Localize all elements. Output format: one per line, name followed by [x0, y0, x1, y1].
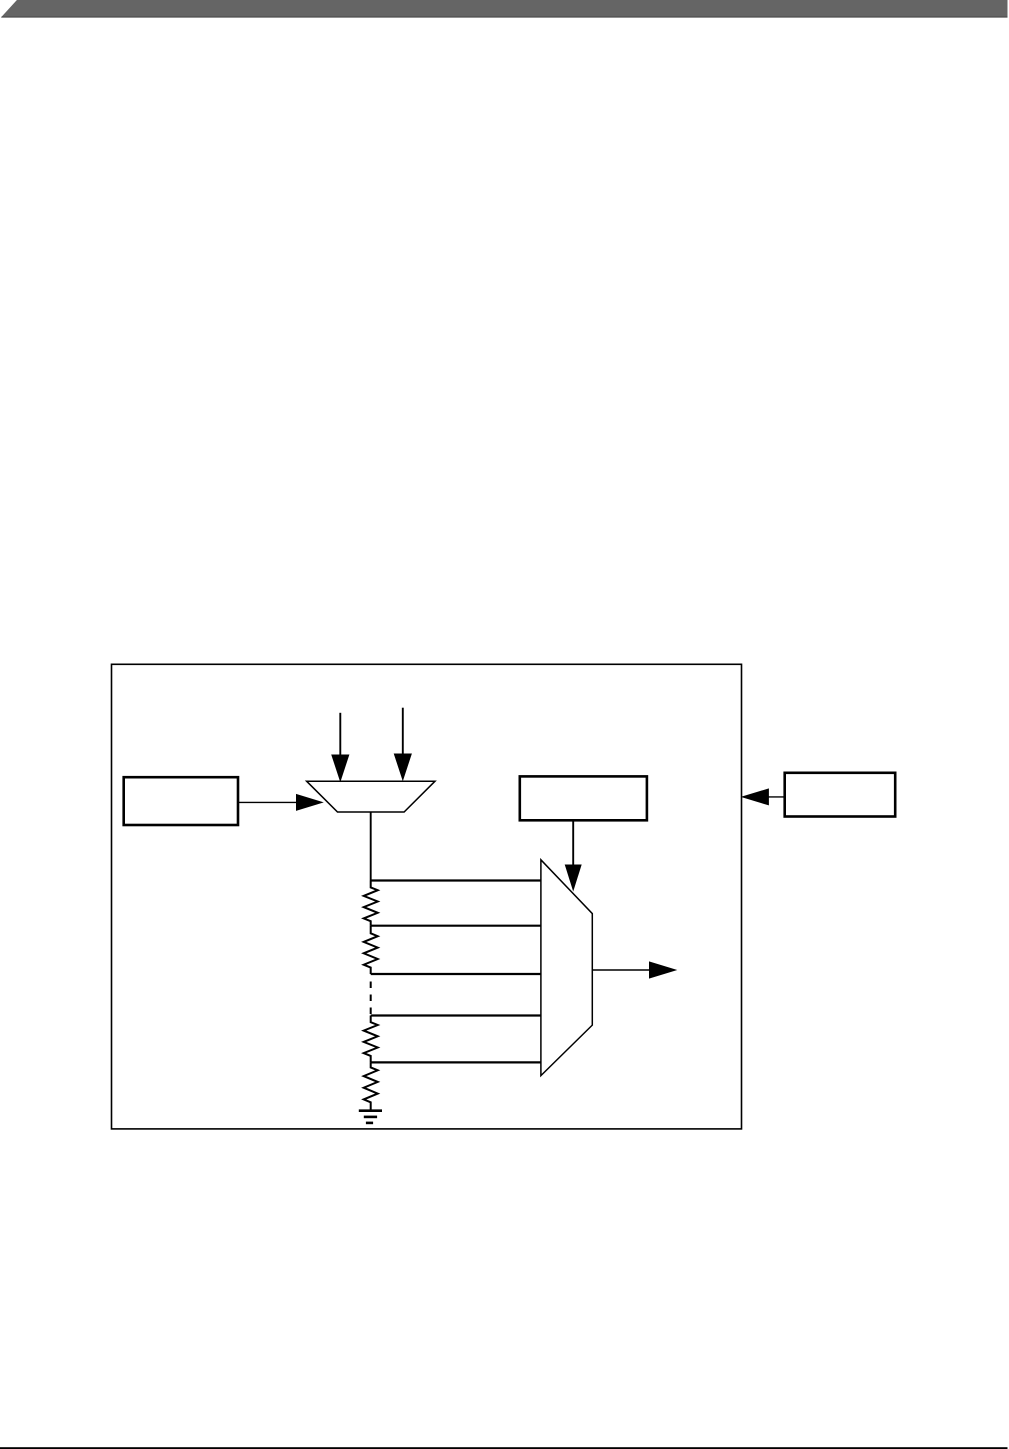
- header bar: [1, 0, 1008, 18]
- wire from U1 down to ladder top: [370, 812, 372, 881]
- box left (VRSS select): [124, 777, 238, 825]
- resistor R1: [364, 881, 378, 926]
- tap wire 1: [371, 879, 541, 881]
- trapezoid U1 (reference select mux): [307, 781, 435, 812]
- header bar bottom edge: [2, 16, 1008, 18]
- resistor R3: [364, 1016, 378, 1063]
- tap wire 4: [371, 1014, 541, 1016]
- footer rule: [0, 1447, 1008, 1449]
- ground: [359, 1109, 382, 1112]
- mux U2 (16-to-1 analog mux): [541, 860, 592, 1076]
- wire arrow from right box into frame: [764, 796, 785, 798]
- box right (enable, outside frame): [785, 773, 896, 817]
- wire arrow input 1 (down into U1): [339, 713, 341, 758]
- resistor R4: [364, 1062, 378, 1110]
- tap wire 2: [371, 925, 541, 927]
- wire arrow from left box into U1: [238, 801, 300, 803]
- wire arrow input 2 (down into U1): [402, 708, 404, 757]
- box middle (CVR control): [520, 776, 647, 820]
- resistor R2: [364, 926, 378, 974]
- wire arrow output (CVREF): [592, 969, 652, 971]
- tap wire 3: [371, 973, 541, 975]
- dashed ladder segment: [370, 982, 372, 1015]
- wire arrow from middle box into mux U2: [572, 820, 574, 868]
- figure frame: [112, 664, 742, 1129]
- tap wire 5: [371, 1061, 541, 1063]
